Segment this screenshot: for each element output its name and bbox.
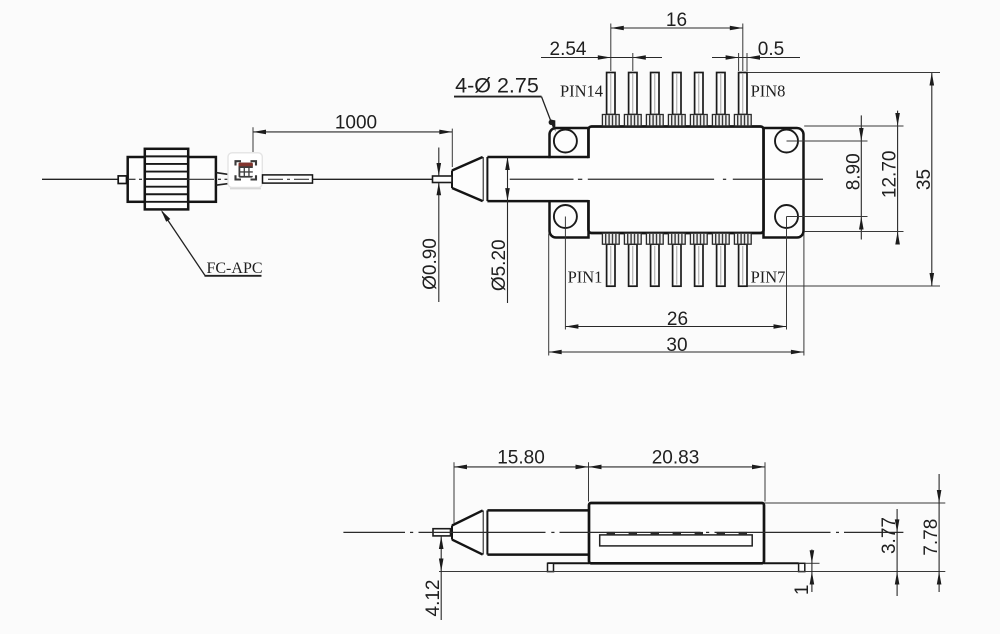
side view snout tube	[489, 512, 588, 554]
dimension 26	[565, 326, 786, 328]
fiber cable jacket segment	[263, 175, 313, 183]
left mounting foot	[548, 563, 554, 571]
dimension diam 0.90	[438, 148, 440, 176]
watermark icon box	[228, 153, 262, 188]
svg-text:Ø5.20: Ø5.20	[489, 239, 510, 291]
side view fiber stub	[433, 529, 451, 536]
connector rear boot lines	[216, 173, 229, 175]
dimension 0.5	[712, 57, 800, 59]
FC-APC connector nose nub	[118, 176, 126, 184]
dimension 12.70	[897, 111, 899, 245]
package right flange (top view)	[764, 128, 804, 238]
dimension 1000	[253, 131, 452, 133]
side view baseplate	[548, 562, 590, 564]
dimension 7.78	[938, 474, 940, 592]
dimension 3.77	[896, 509, 898, 596]
FC-APC connector body right section	[188, 157, 216, 202]
dimension 30	[549, 351, 804, 353]
svg-text:PIN1: PIN1	[568, 268, 603, 287]
svg-text:26: 26	[667, 309, 688, 330]
bare fiber line to package	[313, 178, 433, 180]
mounting hole top-left	[554, 130, 577, 153]
mounting hole top-right	[775, 130, 798, 153]
side view package body	[589, 503, 764, 563]
body top extension line	[764, 502, 945, 504]
fiber lead-in line (top view)	[42, 178, 119, 180]
svg-text:4.12: 4.12	[423, 580, 444, 617]
nose cone (top view)	[452, 157, 483, 201]
FC-APC label with underline	[205, 275, 262, 277]
svg-text:15.80: 15.80	[497, 447, 545, 468]
bottom pin bases (feedthrough)	[602, 233, 619, 244]
dimension 35	[931, 73, 933, 287]
svg-text:PIN14: PIN14	[560, 81, 603, 100]
snout tube (top view)	[489, 158, 591, 200]
watermark table icon	[239, 163, 253, 178]
svg-text:12.70: 12.70	[880, 151, 901, 199]
baseplate right extension	[805, 562, 820, 564]
side view snout ring	[482, 510, 484, 554]
side view pin strip	[600, 535, 753, 546]
dimension 4.12	[440, 536, 442, 620]
dimension 16	[611, 27, 743, 29]
svg-text:2.54: 2.54	[550, 39, 587, 60]
svg-text:4-Ø 2.75: 4-Ø 2.75	[455, 74, 539, 98]
package left flange (top view)	[550, 128, 589, 238]
seating datum line	[439, 571, 945, 573]
svg-text:FC-APC: FC-APC	[206, 260, 262, 277]
dimension 15.80	[454, 466, 589, 468]
svg-text:20.83: 20.83	[652, 447, 700, 468]
svg-text:35: 35	[914, 169, 935, 190]
mounting hole bottom-left	[554, 205, 577, 228]
svg-text:0.5: 0.5	[758, 39, 784, 60]
dimension 2.54	[541, 57, 662, 59]
package centerline (top view)	[510, 178, 574, 180]
dimension 20.83	[589, 466, 766, 468]
side view centerline	[343, 531, 405, 533]
snout ring	[482, 157, 484, 201]
top pin bases (feedthrough)	[602, 115, 619, 126]
svg-text:16: 16	[666, 10, 687, 31]
svg-text:1: 1	[792, 585, 813, 596]
svg-text:3.77: 3.77	[879, 517, 900, 554]
svg-text:1000: 1000	[335, 113, 377, 134]
fiber stub at nose (top view)	[433, 176, 453, 183]
package body (top view)	[589, 127, 764, 234]
svg-text:7.78: 7.78	[921, 519, 942, 556]
mounting hole bottom-right	[775, 205, 798, 228]
side view nose cone	[452, 510, 483, 554]
FC-APC connector body left section	[128, 157, 145, 202]
dimension 1	[811, 550, 813, 593]
svg-text:8.90: 8.90	[843, 153, 864, 190]
bottom pin row (PIN1..PIN7)	[607, 244, 615, 286]
svg-text:PIN8: PIN8	[751, 81, 786, 100]
svg-text:30: 30	[666, 335, 687, 356]
svg-text:Ø0.90: Ø0.90	[420, 238, 441, 290]
FC-APC connector knurled nut	[145, 149, 188, 210]
connector centerline (dash-dot)	[128, 178, 136, 180]
dimension 8.90	[860, 115, 862, 239]
dimension diam 5.20	[507, 157, 509, 303]
svg-text:PIN7: PIN7	[751, 268, 786, 287]
top pin row (PIN14..PIN8)	[607, 73, 615, 115]
right mounting foot	[799, 563, 805, 571]
watermark icon corner brackets	[236, 161, 242, 165]
leader arrow to FC-APC label	[162, 212, 205, 276]
side view pin stubs	[607, 532, 615, 535]
